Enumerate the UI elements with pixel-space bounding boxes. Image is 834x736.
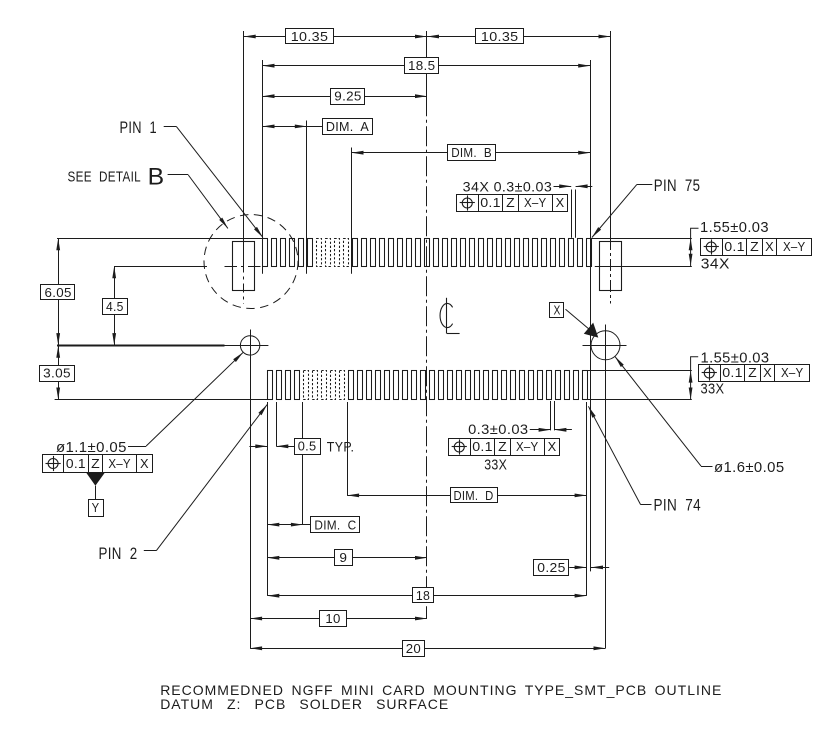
- svg-text:9.25: 9.25: [334, 89, 361, 104]
- svg-text:0.1: 0.1: [724, 240, 745, 254]
- svg-text:X: X: [140, 457, 149, 471]
- svg-text:33X: 33X: [484, 457, 507, 473]
- svg-text:PIN 74: PIN 74: [654, 496, 702, 514]
- svg-text:18: 18: [416, 588, 430, 603]
- svg-text:6.05: 6.05: [45, 285, 72, 300]
- svg-text:PIN 1: PIN 1: [120, 119, 158, 137]
- svg-text:10.35: 10.35: [291, 29, 329, 44]
- svg-text:X: X: [556, 196, 565, 210]
- svg-text:SEE DETAIL: SEE DETAIL: [68, 168, 142, 185]
- svg-text:DIM. C: DIM. C: [314, 517, 356, 532]
- svg-text:34X: 34X: [701, 257, 730, 273]
- svg-text:DIM. A: DIM. A: [326, 119, 369, 134]
- svg-text:ø1.1±0.05: ø1.1±0.05: [56, 440, 127, 456]
- svg-text:0.5: 0.5: [298, 439, 317, 454]
- svg-text:10: 10: [325, 611, 340, 626]
- svg-text:X–Y: X–Y: [516, 440, 539, 454]
- svg-text:3.05: 3.05: [43, 366, 71, 381]
- svg-text:ø1.6±0.05: ø1.6±0.05: [714, 460, 785, 476]
- svg-text:34X 0.3±0.03: 34X 0.3±0.03: [463, 178, 553, 194]
- svg-text:DIM. D: DIM. D: [454, 488, 494, 503]
- svg-text:X: X: [548, 440, 557, 454]
- svg-text:20: 20: [406, 641, 421, 656]
- svg-text:DIM. B: DIM. B: [451, 145, 492, 160]
- svg-text:0.1: 0.1: [472, 440, 493, 454]
- svg-text:0.25: 0.25: [537, 560, 565, 575]
- svg-text:TYP.: TYP.: [327, 438, 355, 454]
- svg-text:Z: Z: [498, 440, 507, 454]
- svg-text:0.1: 0.1: [66, 457, 86, 471]
- svg-text:X–Y: X–Y: [524, 196, 547, 210]
- svg-text:1.55±0.03: 1.55±0.03: [700, 220, 769, 236]
- svg-text:Z: Z: [748, 366, 757, 380]
- svg-text:X: X: [553, 303, 560, 318]
- svg-text:Z: Z: [506, 196, 515, 210]
- svg-text:X–Y: X–Y: [783, 240, 806, 254]
- svg-text:0.1: 0.1: [480, 196, 501, 210]
- svg-text:B: B: [148, 163, 165, 190]
- svg-text:33X: 33X: [701, 382, 725, 398]
- svg-text:0.3±0.03: 0.3±0.03: [468, 421, 528, 437]
- svg-text:Y: Y: [92, 500, 100, 515]
- svg-text:0.1: 0.1: [722, 366, 743, 380]
- svg-text:9: 9: [339, 550, 347, 565]
- svg-text:Z: Z: [750, 240, 759, 254]
- svg-text:X: X: [763, 366, 772, 380]
- svg-text:Z: Z: [91, 457, 100, 471]
- svg-text:18.5: 18.5: [408, 58, 435, 73]
- svg-text:PIN 75: PIN 75: [654, 177, 701, 195]
- svg-text:PIN 2: PIN 2: [99, 545, 138, 563]
- svg-text:10.35: 10.35: [481, 29, 519, 44]
- svg-text:X–Y: X–Y: [781, 366, 804, 380]
- svg-text:4.5: 4.5: [106, 299, 124, 314]
- svg-text:X: X: [765, 240, 774, 254]
- svg-text:X–Y: X–Y: [108, 457, 131, 471]
- svg-text:DATUM Z: PCB SOLDER SURFACE: DATUM Z: PCB SOLDER SURFACE: [160, 696, 449, 712]
